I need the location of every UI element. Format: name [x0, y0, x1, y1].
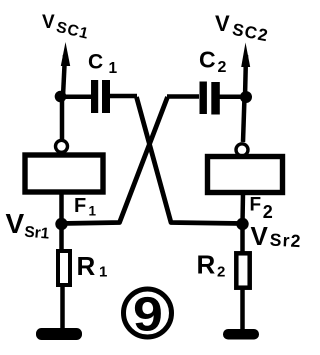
svg-text:1: 1: [99, 264, 107, 281]
label R2: [197, 250, 226, 281]
svg-text:V: V: [42, 12, 55, 33]
inverter bubble on F1: [56, 140, 68, 152]
wire VSr1 node to R1: [59, 224, 64, 251]
crossover wire from C1 to VSr2 node: [137, 97, 243, 224]
svg-text:SC2: SC2: [231, 20, 271, 46]
junction dot VSC2/C2: [240, 91, 252, 103]
ground (right): [223, 329, 259, 340]
block F1: [25, 155, 103, 192]
block F2: [208, 157, 283, 193]
junction dot VSC1/C1: [55, 91, 67, 103]
label R1: [77, 251, 108, 281]
supply arrow to VSC2: [241, 43, 250, 98]
label F2: [250, 195, 273, 223]
wire VSr2 node to R2: [240, 224, 245, 253]
inverter bubble on F2: [236, 144, 248, 156]
wire VSC1 junction to F1 input bubble: [60, 96, 65, 141]
wire R2 to ground: [240, 287, 245, 334]
wire F1 output to VSr1 node: [59, 192, 64, 223]
wire R1 to ground: [60, 285, 65, 332]
node VSC1 label: [42, 12, 91, 43]
resistor R2: [236, 253, 249, 287]
svg-text:2: 2: [217, 264, 225, 281]
svg-text:1: 1: [89, 204, 97, 219]
wire VSC2 junction to F2 input bubble: [243, 97, 245, 142]
wire C2 left plate to crossover bend: [167, 94, 199, 99]
svg-text:R: R: [77, 251, 96, 281]
resistor R1: [58, 251, 70, 285]
svg-text:SC1: SC1: [55, 19, 91, 43]
figure number 9 (circled): [124, 287, 172, 341]
wire C2 right plate to junction: [219, 95, 246, 100]
label C1: [88, 51, 118, 78]
svg-text:F: F: [250, 195, 262, 216]
capacitor C2: [200, 82, 220, 115]
svg-text:2: 2: [218, 59, 227, 76]
wire C1 right plate to crossover bend: [109, 94, 137, 99]
supply arrow to VSC1: [61, 42, 70, 96]
svg-text:V: V: [251, 221, 269, 251]
svg-text:2: 2: [263, 202, 273, 222]
svg-text:9: 9: [133, 287, 163, 341]
label C2: [199, 47, 227, 77]
svg-text:V: V: [215, 11, 230, 36]
label F1: [74, 195, 97, 219]
wire F2 output to VSr2 node: [240, 193, 245, 223]
svg-text:C: C: [199, 47, 216, 73]
ground (left): [36, 328, 82, 340]
wire junction to C1 left plate: [60, 95, 92, 100]
svg-text:Sr2: Sr2: [269, 230, 302, 252]
node VSr2 label: [251, 221, 303, 251]
crossover wire from C2 to VSr1 node: [61, 97, 168, 224]
junction dot VSr2: [236, 218, 248, 230]
junction dot VSr1: [55, 218, 67, 230]
capacitor C1: [91, 80, 110, 113]
svg-text:F: F: [74, 195, 86, 217]
svg-text:R: R: [197, 250, 216, 280]
svg-text:V: V: [6, 208, 25, 239]
svg-text:C: C: [88, 51, 103, 74]
svg-text:Sr1: Sr1: [24, 224, 51, 243]
node VSr1 label: [6, 208, 51, 243]
svg-text:1: 1: [109, 60, 118, 77]
node VSC2 label: [215, 11, 270, 45]
